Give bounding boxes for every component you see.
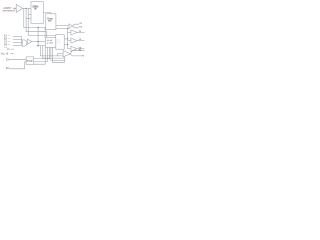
driver box B [56, 35, 64, 50]
svg-text:Vcc +5: Vcc +5 [1, 53, 9, 56]
buffer U3 [71, 38, 77, 43]
wire gate in 3 [13, 41, 22, 43]
wire Q1 out A [73, 24, 79, 26]
transistor Q1 [69, 24, 73, 29]
wire buffer2 input [68, 40, 71, 42]
wire feedback stair 1 [24, 8, 45, 37]
timer IC1 box [31, 2, 43, 24]
wire bracket 4 [52, 47, 65, 62]
node INPUT label [3, 8, 16, 13]
node bus junction dot [67, 28, 68, 29]
wire box B out 2 [64, 43, 67, 45]
wire bracket 1 [41, 46, 63, 56]
terminal label 3 [79, 47, 82, 49]
wire gate input bus [21, 37, 23, 46]
IC2 label [47, 17, 52, 22]
wire gate out [32, 41, 46, 43]
op-amp U5 [63, 51, 70, 57]
svg-text:-2 +10: -2 +10 [46, 43, 53, 45]
wire gate in 2 [13, 38, 22, 40]
power wire 1 [11, 48, 14, 50]
latch box A [45, 37, 55, 47]
wire buffer1 out [77, 31, 84, 33]
wire buffer3 input [68, 48, 71, 50]
node dot [37, 41, 38, 42]
node dot [67, 44, 68, 45]
node junction dot [25, 8, 26, 9]
decoder input label 2 [6, 67, 10, 70]
arrowhead [14, 8, 16, 10]
power wire 2 [10, 52, 14, 54]
wire to output amp [58, 54, 64, 56]
input labels left [4, 35, 11, 50]
wire Q1 out B [73, 26, 79, 28]
wire input to buffer [13, 8, 16, 10]
wire decoder out 2 [34, 47, 48, 61]
wire U5 out A [70, 51, 84, 54]
node stair dot [37, 27, 38, 28]
wire feedback stair 2 [26, 8, 47, 37]
wire decoder out 3 [34, 47, 46, 64]
wire gate in 1 [13, 36, 22, 38]
wire U1 out to IC1 [23, 7, 31, 9]
wire buffer3 out [77, 48, 84, 50]
power label 2 [1, 53, 9, 56]
wire bracket 3 [51, 47, 65, 60]
box A label [46, 40, 53, 45]
terminal label 1 [79, 31, 82, 33]
wire collector to U5 bottom [64, 57, 66, 62]
decoder box [26, 57, 34, 65]
wire counter out A [56, 25, 69, 27]
wire vertical 38 [37, 28, 39, 46]
gate G1 [22, 40, 27, 46]
wire counter out B [56, 27, 69, 29]
wire decoder in 2 [9, 62, 26, 69]
buffer U2 [71, 30, 77, 35]
svg-text:REFERENCE: REFERENCE [3, 10, 16, 12]
wire IC1 to counter clock [43, 13, 51, 14]
decoder input label 1 [6, 58, 10, 61]
node dot [67, 38, 68, 39]
wire gate in 4 [13, 44, 22, 46]
wire U5 out B [70, 54, 81, 56]
terminal label 2 [79, 39, 82, 41]
counter IC2 box [46, 14, 56, 30]
svg-text:Decodr: Decodr [27, 60, 33, 63]
wire branch trigger [26, 17, 31, 19]
terminal OUT1 label [79, 23, 83, 29]
wire decoder in 1 [9, 59, 26, 61]
wire decoder out 1 [34, 47, 50, 58]
svg-text:D4 —: D4 — [4, 43, 11, 46]
wire mid horizontal [37, 45, 46, 47]
node dot [37, 45, 38, 46]
wire box B out 1 [64, 38, 67, 40]
terminal out labels [79, 49, 85, 57]
wire buffer1 input [68, 31, 71, 33]
wire bracket 2 [43, 46, 65, 58]
power label 1 [7, 48, 11, 51]
IC1 label [33, 6, 39, 10]
op-amp U1 [16, 4, 22, 12]
buffer U4 [71, 46, 77, 51]
wire buffer2 out [77, 40, 84, 42]
bus vertical to buffers [67, 28, 69, 48]
inverter T2 [28, 39, 32, 44]
wire feedback stair 3 [28, 8, 56, 35]
wire branch threshold [28, 13, 31, 15]
decoder label [27, 60, 33, 63]
